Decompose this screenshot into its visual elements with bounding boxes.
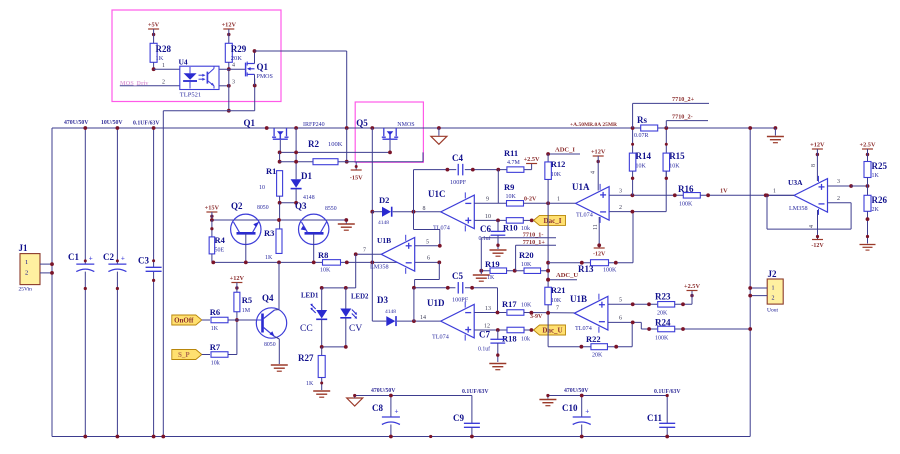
svg-text:4: 4: [232, 63, 235, 69]
svg-text:J1: J1: [19, 243, 29, 253]
svg-text:TL074: TL074: [575, 325, 592, 332]
svg-text:R15: R15: [669, 151, 685, 161]
svg-text:0.1uf: 0.1uf: [478, 346, 490, 353]
svg-text:R18: R18: [502, 334, 517, 344]
svg-text:C2: C2: [103, 252, 114, 262]
svg-text:TL074: TL074: [432, 334, 449, 341]
svg-text:ADC_I: ADC_I: [555, 147, 575, 154]
svg-text:7710_2-: 7710_2-: [672, 114, 693, 121]
svg-text:8: 8: [811, 164, 817, 167]
svg-text:CV: CV: [349, 324, 362, 334]
svg-text:7710_2+: 7710_2+: [672, 96, 695, 103]
svg-text:+: +: [89, 255, 93, 263]
svg-text:13: 13: [485, 306, 491, 312]
svg-text:8: 8: [423, 206, 426, 212]
svg-text:8050: 8050: [257, 205, 269, 211]
svg-text:D2: D2: [379, 195, 389, 205]
svg-text:5: 5: [619, 298, 622, 304]
svg-text:+: +: [121, 255, 125, 263]
svg-text:R1: R1: [266, 166, 276, 176]
svg-text:1V: 1V: [720, 188, 728, 195]
svg-text:-12V: -12V: [593, 252, 606, 258]
svg-text:10K: 10K: [551, 298, 562, 304]
svg-text:Q4: Q4: [262, 293, 274, 303]
svg-text:U1B: U1B: [377, 236, 391, 245]
svg-text:R28: R28: [156, 44, 172, 54]
svg-text:20K: 20K: [657, 311, 668, 317]
svg-text:50E: 50E: [215, 248, 225, 254]
svg-text:LED1: LED1: [301, 293, 319, 300]
svg-text:1: 1: [773, 189, 776, 195]
svg-text:2: 2: [772, 296, 775, 302]
svg-text:R22: R22: [586, 334, 601, 344]
svg-text:J2: J2: [768, 269, 778, 279]
svg-text:+2.5V: +2.5V: [524, 156, 540, 163]
svg-text:R19: R19: [485, 259, 500, 269]
svg-text:R29: R29: [231, 44, 247, 54]
svg-text:470U/50V: 470U/50V: [64, 120, 89, 126]
svg-text:10U/50V: 10U/50V: [101, 120, 123, 126]
svg-text:1K: 1K: [872, 173, 880, 179]
svg-text:R21: R21: [551, 285, 566, 295]
svg-text:0.1UF/63V: 0.1UF/63V: [133, 121, 160, 127]
svg-text:C9: C9: [453, 413, 464, 423]
svg-text:+A.50MR.0A 25MR: +A.50MR.0A 25MR: [570, 122, 618, 128]
svg-text:20K: 20K: [231, 55, 243, 62]
svg-text:4148: 4148: [385, 309, 396, 315]
svg-text:R2: R2: [308, 139, 319, 149]
svg-text:U1C: U1C: [428, 189, 446, 199]
svg-text:9: 9: [486, 197, 489, 203]
svg-text:R9: R9: [504, 182, 514, 192]
svg-text:TL074: TL074: [576, 212, 593, 219]
svg-text:+5V: +5V: [148, 22, 160, 29]
svg-text:Dac_U: Dac_U: [542, 327, 562, 335]
svg-text:Q1: Q1: [257, 62, 269, 72]
svg-text:1M: 1M: [242, 308, 251, 314]
svg-text:IRFP240: IRFP240: [303, 122, 325, 128]
svg-text:R3: R3: [264, 228, 274, 238]
svg-text:1K: 1K: [306, 381, 314, 387]
svg-text:1K: 1K: [265, 255, 273, 261]
svg-text:R14: R14: [636, 151, 652, 161]
svg-text:0.1UF/63V: 0.1UF/63V: [654, 389, 681, 395]
svg-text:3: 3: [232, 80, 235, 86]
svg-text:0.07R: 0.07R: [634, 133, 649, 139]
svg-text:11: 11: [593, 224, 599, 230]
svg-text:+12V: +12V: [222, 22, 237, 29]
svg-text:R7: R7: [210, 342, 221, 352]
svg-text:U1A: U1A: [572, 182, 590, 192]
svg-text:LM358: LM358: [370, 264, 389, 271]
svg-text:4: 4: [591, 171, 597, 174]
svg-text:100K: 100K: [679, 202, 693, 208]
svg-text:10K: 10K: [521, 303, 532, 309]
svg-text:R11: R11: [504, 148, 518, 158]
svg-text:LED2: LED2: [351, 294, 369, 301]
svg-text:-12V: -12V: [811, 243, 824, 249]
svg-text:C5: C5: [452, 271, 463, 281]
svg-text:1: 1: [25, 259, 28, 266]
svg-text:U1D: U1D: [427, 298, 445, 308]
svg-text:R17: R17: [502, 299, 517, 309]
svg-text:C8: C8: [372, 403, 383, 413]
svg-text:R5: R5: [242, 295, 252, 305]
svg-text:Dac_I: Dac_I: [544, 217, 562, 225]
svg-text:+12V: +12V: [591, 149, 606, 156]
svg-text:C10: C10: [562, 403, 578, 413]
svg-text:Q5: Q5: [356, 118, 368, 128]
svg-text:TL074: TL074: [433, 225, 450, 232]
svg-text:4148: 4148: [378, 220, 389, 226]
svg-text:R6: R6: [210, 307, 220, 317]
svg-text:10K: 10K: [551, 172, 562, 178]
svg-text:TLP521: TLP521: [180, 92, 201, 99]
svg-text:+12V: +12V: [810, 142, 825, 149]
svg-text:C6: C6: [480, 224, 491, 234]
svg-text:6: 6: [427, 256, 430, 262]
svg-text:6: 6: [619, 316, 622, 322]
svg-text:U4: U4: [179, 58, 188, 67]
svg-text:3-9V: 3-9V: [530, 314, 543, 320]
svg-text:C11: C11: [647, 413, 663, 423]
svg-text:3: 3: [837, 179, 840, 185]
svg-text:R26: R26: [872, 195, 888, 205]
svg-text:C3: C3: [138, 255, 149, 265]
svg-text:C1: C1: [68, 252, 79, 262]
svg-text:1K: 1K: [211, 326, 219, 332]
svg-text:1K: 1K: [156, 55, 164, 62]
svg-text:3: 3: [619, 189, 622, 195]
svg-text:Q3: Q3: [295, 201, 307, 211]
svg-text:10K: 10K: [506, 194, 517, 200]
svg-text:S_P: S_P: [178, 351, 190, 359]
svg-text:470U/50V: 470U/50V: [371, 388, 396, 394]
svg-text:100PF: 100PF: [450, 179, 467, 186]
svg-text:NMOS: NMOS: [397, 122, 414, 128]
svg-text:14: 14: [420, 315, 426, 321]
svg-text:0.1uf: 0.1uf: [479, 235, 491, 242]
svg-text:R27: R27: [298, 353, 314, 363]
svg-text:OnOff: OnOff: [174, 317, 194, 325]
svg-text:C4: C4: [452, 153, 463, 163]
svg-text:R12: R12: [551, 159, 566, 169]
svg-text:R13: R13: [578, 264, 594, 274]
svg-text:1: 1: [162, 63, 165, 69]
svg-text:2K: 2K: [872, 207, 880, 213]
svg-text:LM358: LM358: [789, 205, 808, 212]
svg-text:25Vin: 25Vin: [19, 287, 33, 293]
svg-text:ADC_U: ADC_U: [556, 272, 578, 279]
svg-text:10k: 10k: [521, 337, 530, 343]
svg-text:2: 2: [162, 80, 165, 86]
svg-text:470U/50V: 470U/50V: [564, 388, 589, 394]
svg-text:7710_1+: 7710_1+: [523, 239, 546, 246]
svg-text:7710_1-: 7710_1-: [523, 231, 544, 238]
svg-text:10: 10: [485, 214, 491, 220]
svg-text:10k: 10k: [211, 361, 220, 367]
svg-text:CC: CC: [300, 324, 313, 334]
svg-text:-15V: -15V: [350, 175, 363, 182]
svg-text:0.1UF/63V: 0.1UF/63V: [462, 389, 489, 395]
svg-text:Q2: Q2: [231, 201, 243, 211]
svg-text:D3: D3: [377, 295, 388, 305]
svg-text:2: 2: [837, 196, 840, 202]
svg-text:Rs: Rs: [637, 115, 647, 125]
svg-text:1: 1: [772, 286, 775, 292]
svg-text:2: 2: [619, 205, 622, 211]
svg-text:Uout: Uout: [767, 308, 778, 314]
svg-text:R23: R23: [655, 292, 671, 302]
svg-text:D1: D1: [301, 171, 312, 181]
svg-text:Q1: Q1: [244, 118, 256, 128]
svg-text:10K: 10K: [521, 262, 532, 268]
svg-text:U1B: U1B: [570, 294, 587, 304]
svg-text:1K: 1K: [487, 275, 495, 281]
svg-text:PMOS: PMOS: [257, 74, 273, 80]
svg-text:4: 4: [809, 225, 815, 228]
svg-text:+2.5V: +2.5V: [684, 283, 700, 290]
svg-text:10: 10: [259, 185, 265, 191]
svg-text:R25: R25: [872, 161, 888, 171]
svg-text:+12V: +12V: [230, 275, 245, 282]
svg-text:100K: 100K: [655, 336, 669, 342]
svg-text:100K: 100K: [328, 141, 343, 148]
svg-text:10K: 10K: [669, 164, 680, 170]
svg-text:+15V: +15V: [205, 205, 220, 212]
svg-text:R16: R16: [678, 184, 694, 194]
svg-text:+: +: [395, 408, 399, 416]
svg-text:U3A: U3A: [788, 178, 803, 187]
svg-text:R4: R4: [215, 235, 226, 245]
svg-text:1: 1: [557, 197, 560, 203]
svg-text:5: 5: [426, 240, 429, 246]
svg-text:0-2V: 0-2V: [524, 197, 537, 203]
svg-text:10K: 10K: [320, 268, 331, 274]
svg-text:R20: R20: [519, 250, 534, 260]
svg-text:MOS_Driv: MOS_Driv: [120, 81, 148, 87]
svg-text:7: 7: [363, 248, 366, 254]
svg-text:+2.5V: +2.5V: [859, 142, 875, 149]
svg-text:C7: C7: [479, 330, 490, 340]
svg-text:4.7M: 4.7M: [507, 160, 521, 166]
svg-text:20K: 20K: [592, 353, 603, 359]
svg-text:8050: 8050: [264, 342, 276, 348]
svg-text:10K: 10K: [636, 164, 647, 170]
svg-text:R24: R24: [655, 318, 671, 328]
svg-text:+: +: [585, 408, 589, 416]
svg-text:7: 7: [556, 306, 559, 312]
svg-text:2: 2: [25, 270, 28, 277]
svg-text:R8: R8: [318, 250, 328, 260]
svg-text:8550: 8550: [325, 206, 337, 212]
svg-text:100K: 100K: [603, 268, 617, 274]
svg-text:100PF: 100PF: [452, 297, 469, 304]
